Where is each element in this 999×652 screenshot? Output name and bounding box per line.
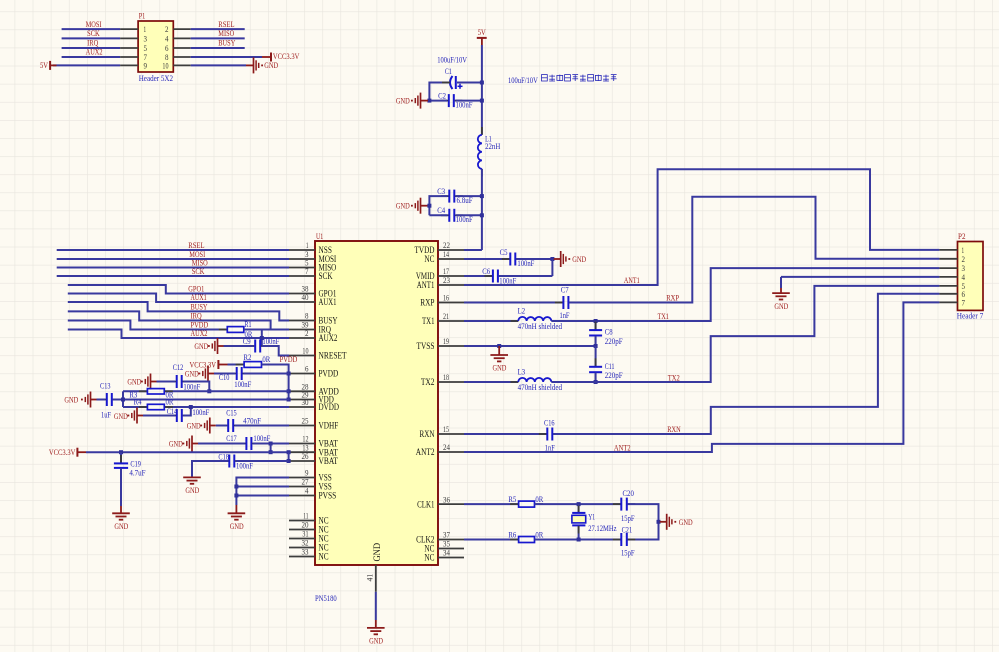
svg-text:41: 41	[366, 574, 375, 582]
wire C17 to VCC rail vertical	[270, 444, 272, 453]
capacitor C2	[440, 100, 448, 102]
capacitor C18	[221, 460, 229, 462]
svg-text:RXP: RXP	[420, 299, 434, 309]
junction VDD pin29	[287, 398, 291, 402]
wire AUX2 to P1	[62, 56, 121, 58]
svg-text:R4: R4	[134, 396, 142, 406]
svg-text:22nH: 22nH	[485, 141, 501, 151]
capacitor C7	[555, 302, 563, 304]
power port 5V top	[477, 37, 487, 39]
U1 left pin names	[319, 246, 347, 563]
wire C19 to GND	[120, 468, 122, 506]
svg-text:GND: GND	[493, 363, 507, 373]
svg-text:NRESET: NRESET	[319, 352, 347, 362]
svg-text:C5: C5	[500, 247, 508, 257]
svg-text:GND: GND	[127, 376, 141, 386]
svg-text:13: 13	[302, 443, 308, 452]
svg-text:6: 6	[305, 365, 309, 374]
wire P1 pin8 to VCC3.3V	[191, 56, 262, 58]
wire C2 right	[456, 100, 482, 102]
ground GND at P1	[246, 64, 254, 66]
ground GND at C14	[128, 408, 144, 424]
wire TVSS gnd stem	[498, 346, 500, 355]
connector P1 body	[138, 21, 173, 72]
junction TX2-C11	[594, 380, 598, 384]
wire net RSEL	[57, 249, 289, 251]
capacitor C9	[247, 345, 255, 347]
wire L1 to TVDD	[481, 169, 483, 250]
junction C3 rail	[480, 194, 484, 198]
svg-text:C2: C2	[438, 90, 446, 100]
wire VSS bus	[236, 478, 289, 506]
wire net TVSS	[464, 345, 596, 347]
wire C12 right to AVDD row	[183, 382, 209, 392]
resistor R4	[139, 406, 148, 408]
svg-text:U1: U1	[316, 231, 323, 241]
svg-text:R6: R6	[508, 530, 516, 540]
capacitor C12	[168, 381, 176, 383]
ground GND at C18	[183, 477, 201, 483]
junction C12-AVDD	[207, 389, 211, 393]
wire pin41 to GND	[375, 592, 377, 620]
wire P1 pin10 to GND	[191, 64, 246, 66]
svg-text:C17: C17	[226, 433, 237, 443]
wire net RXP	[569, 197, 939, 303]
svg-text:BUSY: BUSY	[218, 37, 235, 47]
junction rail pin13 node	[287, 450, 291, 454]
svg-text:PN5180: PN5180	[315, 593, 337, 603]
P2 pin numbers	[962, 246, 966, 308]
svg-text:10: 10	[302, 347, 308, 356]
svg-text:GND: GND	[64, 394, 78, 404]
wire net ANT1	[464, 169, 939, 285]
svg-text:35: 35	[443, 540, 450, 549]
svg-text:DVDD: DVDD	[319, 403, 340, 413]
wire TX2 to L3	[464, 381, 518, 383]
wire C1 right	[457, 82, 482, 84]
svg-text:4: 4	[962, 273, 966, 282]
wire C15 right to VDHF	[235, 425, 289, 427]
svg-text:0R: 0R	[262, 354, 270, 364]
svg-text:GND: GND	[114, 411, 128, 421]
wire net IRQ	[68, 311, 271, 329]
svg-text:2: 2	[962, 255, 966, 264]
ground GND at TVSS	[490, 355, 508, 361]
svg-text:TX2: TX2	[668, 372, 680, 382]
wire DVDD row	[123, 406, 147, 408]
wire pin4 gnd stem	[780, 277, 782, 288]
svg-text:GND: GND	[679, 517, 693, 527]
wire TX1 to L2	[464, 320, 518, 322]
svg-text:15pF: 15pF	[621, 548, 635, 558]
IC U1 body	[315, 241, 438, 565]
wire CLK1 to R5	[464, 503, 519, 505]
svg-text:Header 7: Header 7	[957, 311, 984, 321]
svg-text:L3: L3	[518, 367, 526, 377]
wire C14 left	[143, 415, 175, 417]
wire R2 right down to PVDD pin	[262, 365, 289, 400]
inductor L2	[511, 320, 519, 322]
ground GND at C5	[554, 251, 571, 267]
wire IRQ to P1	[62, 47, 121, 49]
wire net RXN	[553, 294, 939, 434]
wire PVSS pin4	[236, 495, 289, 497]
svg-text:1nF: 1nF	[545, 442, 555, 452]
svg-text:GND: GND	[572, 254, 586, 264]
P1 pins left stubs	[120, 29, 138, 65]
wire C4 right	[456, 214, 482, 216]
svg-text:32: 32	[302, 539, 309, 548]
junction VDD vertical	[121, 398, 125, 402]
svg-text:AUX2: AUX2	[191, 328, 208, 338]
junction C2 left corner	[427, 99, 431, 103]
resistor R3	[139, 390, 148, 392]
svg-text:AUX1: AUX1	[319, 298, 337, 308]
wire R5 right to C20	[535, 503, 621, 505]
svg-text:5V: 5V	[40, 60, 49, 70]
ground GND at VSS bus	[228, 513, 246, 519]
svg-text:6: 6	[165, 44, 169, 53]
U1 bottom pin 41 stub	[375, 565, 377, 592]
svg-text:R2: R2	[244, 352, 252, 362]
capacitor C21	[613, 539, 621, 541]
svg-text:100uF/10V: 100uF/10V	[508, 75, 538, 85]
svg-text:11: 11	[303, 512, 308, 521]
junction VCC rail C17	[269, 450, 273, 454]
svg-text:L2: L2	[518, 306, 526, 316]
wire VCC3.3V rail to VBAT pin13	[86, 451, 289, 453]
svg-text:P2: P2	[958, 231, 966, 241]
capacitor C8 vertical	[595, 321, 597, 330]
junction PVDD pin6	[287, 372, 291, 376]
svg-text:MISO: MISO	[218, 28, 234, 38]
svg-text:2: 2	[305, 329, 309, 338]
svg-text:14: 14	[443, 250, 449, 259]
svg-text:220pF: 220pF	[605, 336, 623, 346]
svg-text:20: 20	[302, 521, 309, 530]
svg-text:R5: R5	[508, 494, 516, 504]
svg-text:31: 31	[302, 530, 308, 539]
svg-text:100uF/10V: 100uF/10V	[437, 55, 467, 65]
svg-text:GND: GND	[373, 543, 383, 562]
ground GND at C12	[141, 374, 157, 390]
wire C6 right	[499, 275, 553, 277]
junction C5 gnd node	[550, 257, 554, 261]
svg-text:18: 18	[443, 373, 449, 382]
svg-text:RXP: RXP	[666, 292, 679, 302]
wire C3 right	[456, 195, 482, 197]
svg-text:1: 1	[962, 246, 965, 255]
svg-text:NC: NC	[424, 554, 434, 564]
wire C9 left	[224, 345, 254, 347]
capacitor C1 polarized	[450, 76, 456, 89]
svg-text:15: 15	[443, 425, 449, 434]
svg-text:24: 24	[443, 443, 450, 452]
wire net GPO1	[68, 285, 289, 294]
wire net AUX1	[68, 294, 289, 303]
wire C2 left	[429, 100, 447, 102]
connector P2 body	[958, 242, 984, 311]
svg-text:15pF: 15pF	[621, 513, 635, 523]
capacitor C11 vertical	[595, 346, 597, 366]
power port VCC3.3V rail	[76, 448, 78, 457]
inductor L1	[481, 127, 483, 135]
svg-text:21: 21	[443, 312, 449, 321]
wire C12 left	[157, 381, 176, 383]
wire net TX2	[551, 286, 939, 382]
svg-text:ANT1: ANT1	[417, 281, 435, 291]
svg-text:9: 9	[144, 61, 148, 70]
crystal Y1	[578, 504, 580, 512]
svg-text:7: 7	[962, 298, 966, 307]
capacitor C3	[441, 195, 449, 197]
U1 right pin names	[415, 246, 435, 564]
svg-text:C4: C4	[437, 205, 445, 215]
svg-text:8: 8	[305, 312, 309, 321]
ground GND at C2	[411, 93, 428, 109]
capacitor C15	[220, 425, 228, 427]
svg-text:R1: R1	[245, 319, 252, 329]
power port 5V at P1	[49, 61, 51, 70]
svg-text:C13: C13	[100, 381, 111, 391]
ground GND at pin41	[367, 628, 385, 634]
svg-text:GND: GND	[185, 485, 199, 495]
wire C3 left	[429, 196, 447, 215]
svg-text:C9: C9	[243, 336, 251, 346]
wire MISO from P1	[191, 37, 245, 39]
wire C5-C6 vertical	[551, 259, 553, 276]
junction C19 tap	[119, 450, 123, 454]
svg-text:19: 19	[443, 337, 449, 346]
svg-text:27: 27	[302, 478, 309, 487]
wire C18 right to pin26	[236, 460, 289, 462]
svg-text:PVDD: PVDD	[319, 370, 339, 380]
svg-text:C6: C6	[482, 266, 490, 276]
svg-text:470nH shielded: 470nH shielded	[518, 382, 563, 392]
svg-text:TX1: TX1	[422, 317, 435, 327]
svg-text:C1: C1	[445, 66, 452, 76]
wire C15 left	[216, 425, 227, 427]
wire VMID to C6	[464, 275, 492, 277]
junction CLK2-Y1	[577, 538, 581, 542]
junction C17 node	[269, 442, 273, 446]
wire C5 right to GND	[516, 258, 552, 260]
wire net MOSI	[57, 258, 289, 260]
wire C20 right down	[628, 504, 659, 539]
svg-text:100nF: 100nF	[192, 407, 209, 417]
wire net TX1	[551, 268, 939, 321]
svg-text:C3: C3	[437, 186, 445, 196]
ground GND at P2 pin4	[772, 293, 790, 299]
wire net AUX2 rail	[68, 330, 289, 339]
wire CLK2 to R6	[464, 539, 519, 541]
P2 pin stubs	[939, 250, 957, 303]
wire R1 right to pin39	[244, 329, 289, 331]
U1 right pin numbers	[443, 241, 450, 558]
wire MOSI to P1	[62, 28, 121, 30]
svg-text:1: 1	[306, 241, 309, 250]
junction TX1-C8	[594, 319, 598, 323]
resistor R1	[219, 329, 228, 331]
svg-text:ANT2: ANT2	[614, 442, 631, 452]
wire C18 left to GND	[192, 461, 228, 477]
svg-text:AUX2: AUX2	[319, 334, 338, 344]
svg-text:25: 25	[302, 417, 309, 426]
wire BUSY from P1	[191, 47, 245, 49]
svg-text:5V: 5V	[478, 27, 487, 37]
svg-text:36: 36	[443, 495, 450, 504]
svg-text:34: 34	[443, 549, 450, 558]
svg-text:1: 1	[144, 25, 147, 34]
wire VBAT pin13-pin26 vertical	[288, 452, 290, 461]
svg-text:PVSS: PVSS	[319, 492, 337, 502]
junction C2-5V	[480, 99, 484, 103]
ground GND at C19	[112, 513, 130, 519]
ground GND at C13	[81, 392, 97, 408]
svg-text:TVSS: TVSS	[417, 342, 435, 352]
wire R1 node to AUX2	[261, 330, 263, 347]
wire C9 right to NRESET	[262, 346, 289, 356]
junction gnd tap clk	[657, 520, 661, 524]
svg-text:C15: C15	[226, 407, 237, 417]
svg-text:22: 22	[443, 241, 450, 250]
svg-text:16: 16	[443, 294, 449, 303]
wire VCC to R2	[228, 364, 245, 366]
junction R1-AUX2	[260, 336, 264, 340]
capacitor C6	[484, 275, 492, 277]
svg-text:30: 30	[302, 398, 309, 407]
svg-text:GND: GND	[187, 420, 201, 430]
wire 5V to P1	[53, 64, 120, 66]
wire VSS pin27	[236, 486, 289, 488]
svg-text:0R: 0R	[535, 530, 543, 540]
svg-text:GND: GND	[774, 301, 788, 311]
svg-text:RXN: RXN	[667, 424, 681, 434]
svg-text:470nF: 470nF	[243, 416, 261, 426]
wire net BUSY	[68, 302, 289, 321]
capacitor C14	[168, 415, 176, 417]
power port VCC3.3V at P1	[270, 53, 272, 62]
svg-text:GND: GND	[185, 368, 199, 378]
U1 left pin numbers	[302, 241, 309, 557]
svg-text:PVDD: PVDD	[280, 354, 298, 364]
svg-text:GND: GND	[264, 60, 278, 70]
svg-text:100nF: 100nF	[253, 433, 270, 443]
svg-text:9: 9	[305, 469, 309, 478]
svg-text:10: 10	[162, 61, 168, 70]
wire NC14 to C5	[464, 258, 510, 260]
svg-text:C16: C16	[544, 418, 555, 428]
wire R6 right to C21	[535, 539, 621, 541]
svg-text:GND: GND	[369, 635, 383, 645]
wire C10 left	[214, 373, 235, 375]
svg-text:3: 3	[144, 34, 148, 43]
resistor R5	[510, 503, 518, 505]
wire net MISO	[57, 267, 289, 269]
svg-text:4.7uF: 4.7uF	[129, 468, 145, 478]
wire C4 left	[429, 214, 447, 216]
svg-text:5: 5	[144, 44, 148, 53]
P1 pin numbers	[144, 25, 169, 70]
wire VDD row	[113, 399, 289, 401]
svg-text:GND: GND	[194, 341, 208, 351]
wire SCK to P1	[62, 37, 121, 39]
svg-text:C7: C7	[561, 285, 569, 295]
svg-text:17: 17	[443, 267, 449, 276]
svg-text:P1: P1	[139, 11, 146, 21]
svg-text:23: 23	[443, 276, 450, 285]
svg-text:100nF: 100nF	[183, 381, 200, 391]
svg-text:100nF: 100nF	[262, 336, 279, 346]
svg-text:1uF: 1uF	[101, 410, 111, 420]
junction TVSS-C8C11	[594, 344, 598, 348]
svg-text:3: 3	[962, 264, 966, 273]
svg-text:Header 5X2: Header 5X2	[139, 73, 173, 83]
svg-text:4: 4	[305, 487, 309, 496]
svg-text:VBAT: VBAT	[319, 457, 339, 467]
svg-text:NC: NC	[319, 553, 329, 563]
svg-text:26: 26	[302, 452, 309, 461]
P1 pins right stubs	[173, 29, 190, 65]
svg-text:GND: GND	[230, 521, 244, 531]
wire net SCK	[57, 275, 289, 277]
wire 5V rail down to L1	[481, 45, 483, 135]
resistor R6	[510, 539, 518, 541]
svg-text:GND: GND	[169, 438, 183, 448]
svg-text:Y1: Y1	[588, 511, 595, 521]
wire RSEL from P1	[191, 28, 245, 30]
svg-text:GND: GND	[396, 201, 410, 211]
capacitor C20	[613, 503, 621, 505]
svg-text:SCK: SCK	[319, 272, 333, 282]
capacitor C4	[441, 214, 449, 216]
wire net PVDD rail	[68, 321, 228, 330]
svg-text:4: 4	[165, 34, 169, 43]
capacitor C13	[98, 399, 106, 401]
wire AVDD-DVDD vertical	[122, 391, 124, 407]
svg-text:2: 2	[165, 25, 169, 34]
svg-text:VCC3.3V: VCC3.3V	[49, 447, 76, 457]
svg-text:TX1: TX1	[658, 311, 669, 321]
junction C4 rail	[480, 213, 484, 217]
ground GND at C15	[200, 418, 216, 434]
svg-text:220pF: 220pF	[605, 370, 623, 380]
svg-text:NC: NC	[424, 255, 434, 265]
U1 right pin stubs	[438, 250, 464, 558]
capacitor C17	[238, 443, 246, 445]
capacitor C19	[120, 452, 122, 463]
wire net ANT2	[464, 302, 939, 452]
wire AVDD row	[123, 390, 147, 392]
resistor R2	[236, 364, 245, 366]
svg-text:100nF: 100nF	[234, 379, 251, 389]
ground GND at CLK	[660, 514, 677, 530]
inductor L3	[511, 381, 519, 383]
wire C13 left	[97, 399, 106, 401]
svg-text:C18: C18	[218, 451, 229, 461]
ground GND at C10	[199, 366, 215, 382]
svg-text:27.12MHz: 27.12MHz	[588, 523, 616, 533]
junction C14-DVDD	[189, 405, 193, 409]
ground GND at C9	[208, 338, 224, 354]
svg-text:C21: C21	[622, 524, 633, 534]
svg-text:VDHF: VDHF	[319, 422, 339, 432]
svg-text:AUX2: AUX2	[86, 46, 103, 56]
svg-text:37: 37	[443, 531, 450, 540]
junction C1-5V	[480, 81, 484, 85]
svg-text:0R: 0R	[535, 494, 543, 504]
svg-text:CLK1: CLK1	[417, 500, 435, 510]
